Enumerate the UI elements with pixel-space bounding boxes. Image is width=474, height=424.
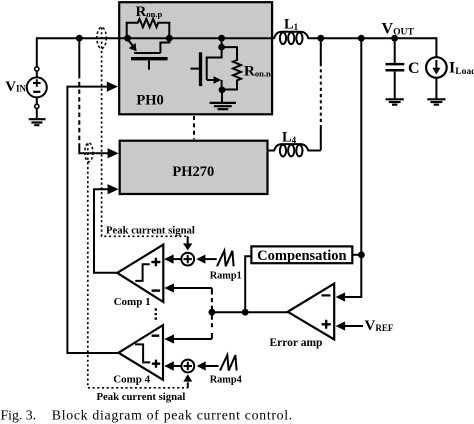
svg-text:Error amp: Error amp [270, 337, 323, 349]
svg-text:Ramp1: Ramp1 [210, 270, 242, 281]
svg-text:PH0: PH0 [136, 92, 163, 108]
svg-text:Compensation: Compensation [257, 248, 346, 264]
svg-text:Peak current signal: Peak current signal [106, 225, 195, 237]
svg-text:Peak current signal: Peak current signal [97, 391, 186, 403]
svg-text:Comp 4: Comp 4 [113, 374, 150, 386]
svg-text:Comp 1: Comp 1 [114, 296, 151, 308]
svg-text:C: C [408, 60, 420, 77]
svg-text:Ramp4: Ramp4 [210, 374, 242, 385]
svg-text:PH270: PH270 [172, 164, 214, 180]
